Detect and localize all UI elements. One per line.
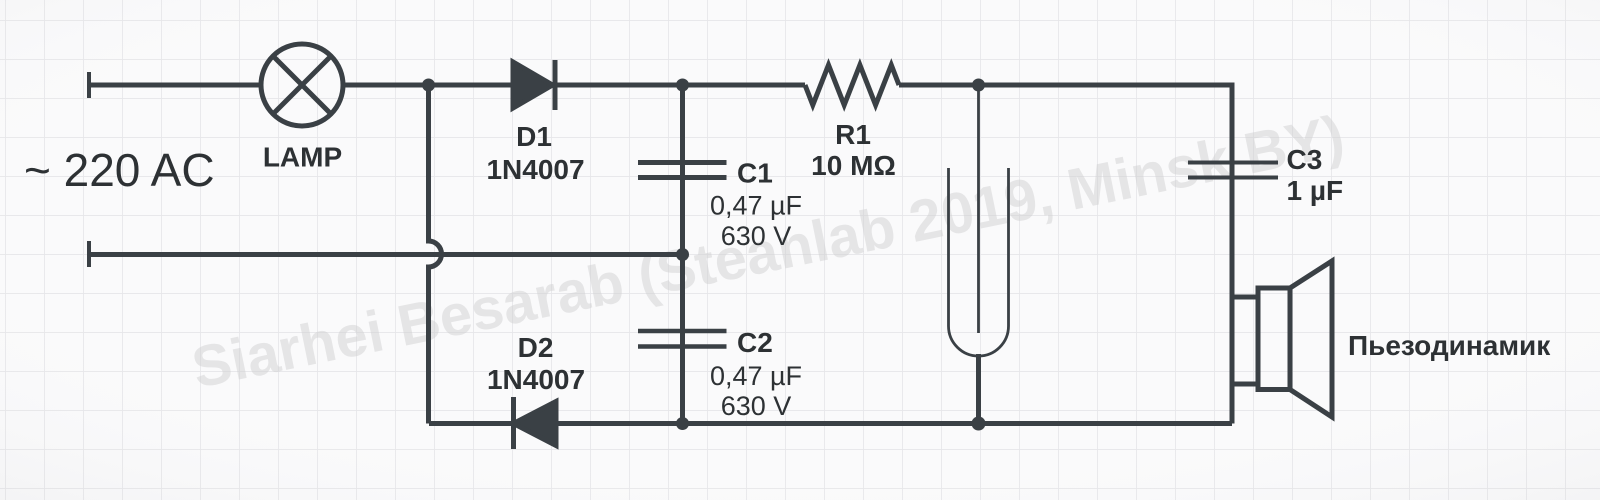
wire: bottom rail [429, 421, 1232, 426]
wire: R1 to node C to top-right corner, down right side [899, 85, 1232, 424]
node B junction [676, 79, 689, 92]
svg-text:10 MΩ: 10 MΩ [811, 150, 896, 181]
diode D2 [514, 397, 557, 449]
wire: node A down with hop over middle rail, to bottom rail [429, 85, 442, 424]
svg-text:1N4007: 1N4007 [487, 364, 585, 395]
svg-text:C3: C3 [1287, 144, 1323, 175]
svg-text:D2: D2 [518, 332, 554, 363]
node F junction (bottom rail / tube) [972, 417, 986, 431]
discharge tube glass envelope [949, 168, 1009, 356]
resistor R1 [805, 65, 899, 105]
svg-text:Пьезодинамик: Пьезодинамик [1348, 330, 1551, 361]
capacitor C3 plates [1188, 163, 1278, 178]
node D junction (middle rail / C branch) [676, 248, 689, 261]
capacitor C1 plates [638, 163, 727, 178]
wire: middle rail, terminal to node D [89, 252, 683, 257]
speaker (piezo) body [1258, 288, 1290, 390]
svg-text:1N4007: 1N4007 [486, 154, 584, 185]
svg-text:C2: C2 [737, 327, 773, 358]
svg-text:0,47 µF: 0,47 µF [710, 191, 802, 221]
wire: speaker stub bottom [1232, 382, 1258, 387]
svg-text:R1: R1 [835, 119, 871, 150]
wire: D1 to node B [555, 83, 683, 88]
terminal: AC input bottom [87, 241, 91, 267]
diode D1 [513, 60, 555, 110]
terminal: AC input top [87, 72, 91, 98]
wire: C1/C2 vertical branch [680, 85, 685, 424]
lamp LAMP (circle with X) [261, 44, 343, 126]
wire: node B to resistor [683, 83, 806, 88]
svg-text:0,47 µF: 0,47 µF [710, 361, 802, 391]
wire: lamp to node A [343, 83, 513, 88]
discharge tube center electrode from node C [977, 85, 980, 333]
node C junction [972, 79, 985, 92]
svg-text:C1: C1 [737, 158, 773, 189]
wire: top rail, terminal to lamp [89, 83, 261, 88]
svg-text:LAMP: LAMP [263, 142, 342, 173]
svg-text:630 V: 630 V [721, 391, 792, 421]
speaker cone [1290, 261, 1332, 417]
node A junction [422, 79, 435, 92]
node E junction (bottom rail / C branch) [676, 417, 689, 430]
capacitor C2 plates [638, 331, 727, 347]
svg-text:1 µF: 1 µF [1287, 175, 1344, 206]
svg-text:D1: D1 [516, 121, 552, 152]
wire: tube bottom to bottom rail [976, 354, 981, 424]
svg-text:~ 220 AC: ~ 220 AC [24, 144, 215, 196]
svg-text:630 V: 630 V [721, 221, 792, 251]
wire: speaker stub top [1232, 295, 1258, 300]
